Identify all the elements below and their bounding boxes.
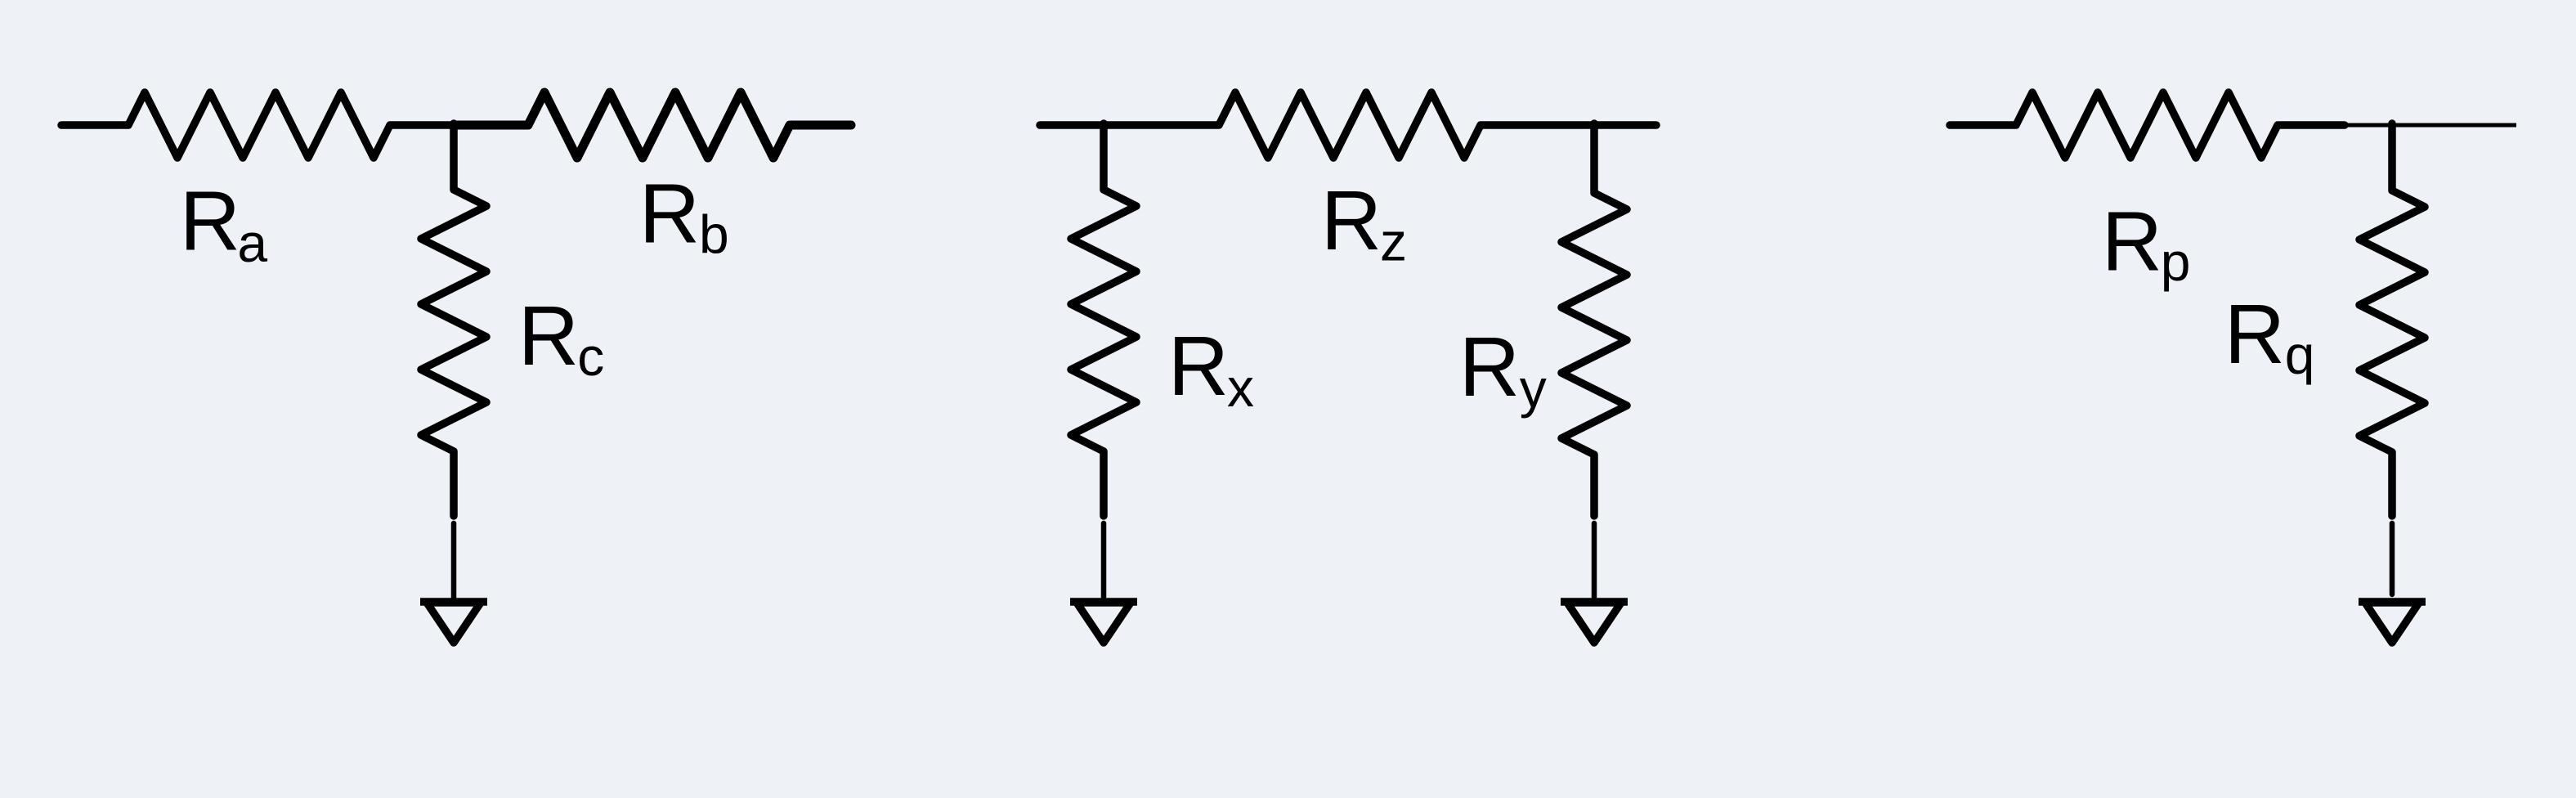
svg-text:R: R — [180, 174, 240, 268]
svg-text:a: a — [237, 213, 267, 273]
svg-text:p: p — [2161, 231, 2191, 292]
svg-text:b: b — [699, 204, 729, 264]
svg-text:R: R — [518, 289, 579, 383]
svg-text:R: R — [1459, 320, 1520, 414]
svg-text:R: R — [639, 167, 700, 261]
svg-text:x: x — [1227, 357, 1254, 418]
svg-text:R: R — [1168, 319, 1229, 413]
svg-text:R: R — [2102, 195, 2162, 289]
svg-text:c: c — [577, 326, 604, 387]
svg-text:y: y — [1520, 358, 1547, 419]
svg-text:R: R — [2224, 287, 2285, 381]
svg-text:q: q — [2285, 325, 2315, 385]
svg-text:R: R — [1321, 173, 1382, 267]
svg-text:z: z — [1380, 212, 1407, 272]
